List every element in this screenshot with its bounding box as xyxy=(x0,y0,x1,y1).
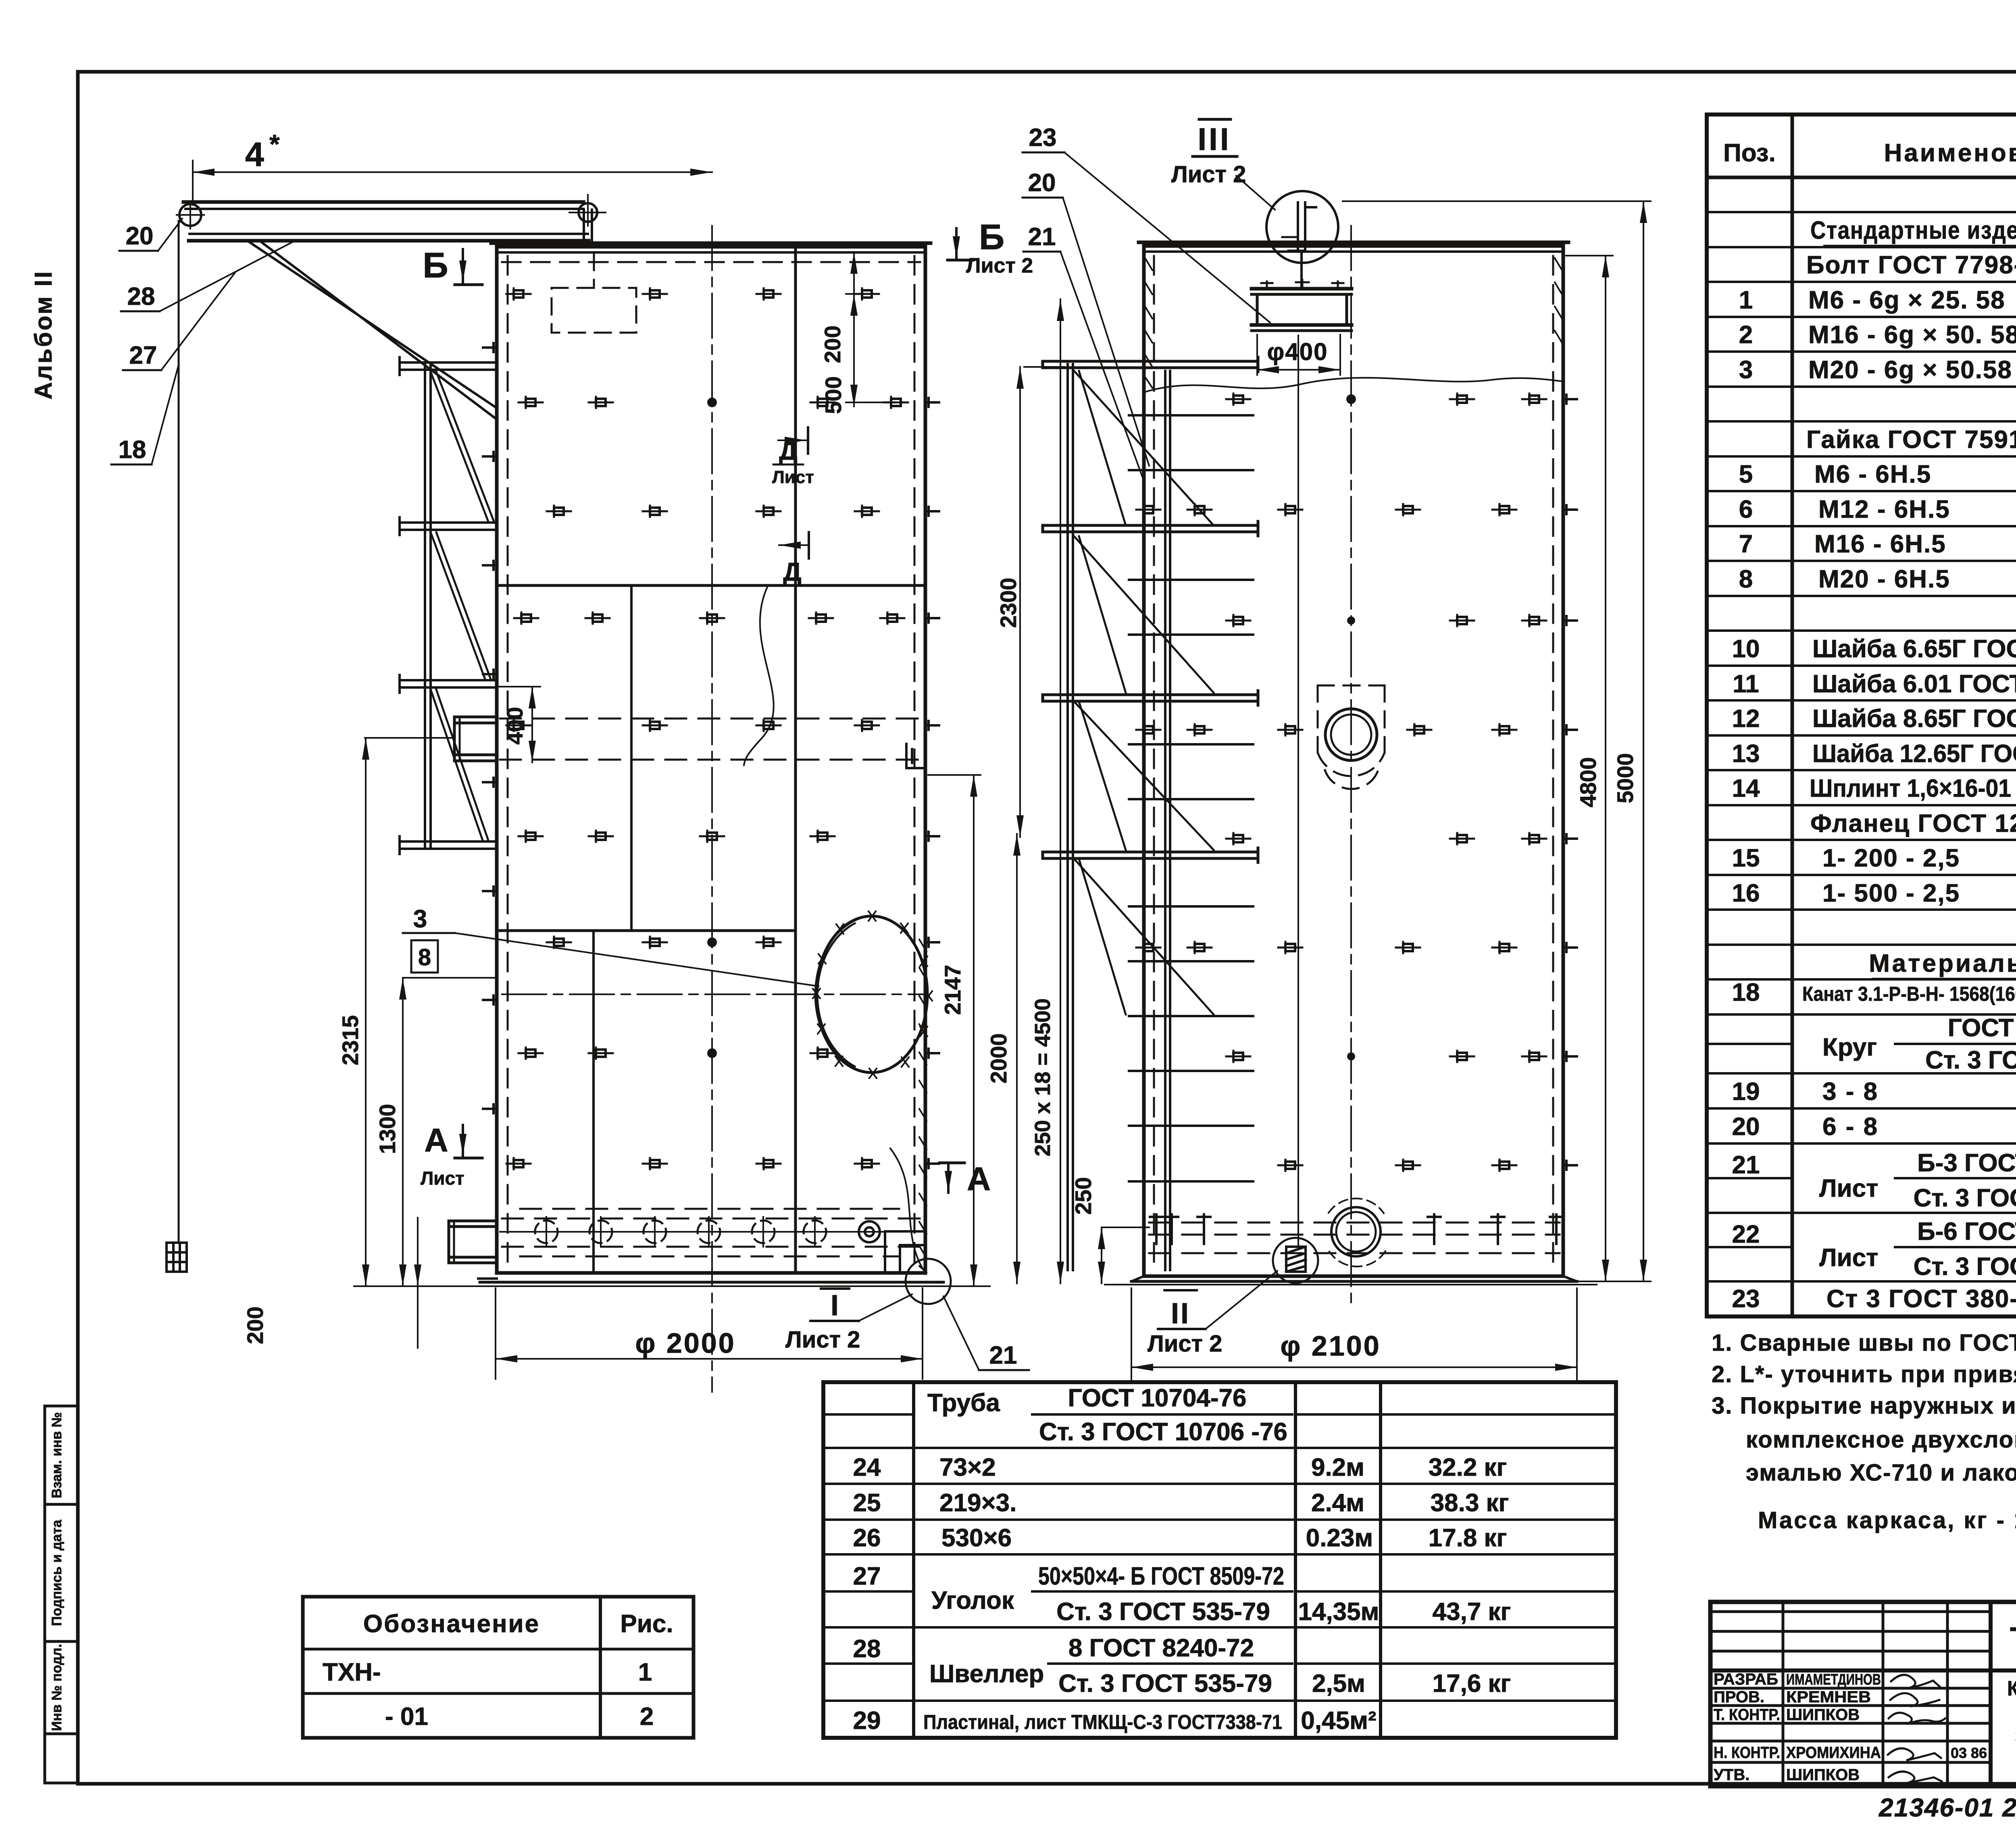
mast bracket 1 xyxy=(400,357,497,375)
svg-text:Шайба 8.65Г ГОСТ 11371-78: Шайба 8.65Г ГОСТ 11371-78 xyxy=(1812,705,2016,733)
svg-text:2. L*- уточнить при прив: 2. L*- уточнить при привязке. xyxy=(1712,1361,2016,1387)
svg-text:Инв № подл.: Инв № подл. xyxy=(49,1644,65,1731)
right view edge ticks xyxy=(1563,395,1577,1170)
svg-text:1: 1 xyxy=(638,1658,652,1686)
right view bolts row 7 xyxy=(1226,1051,1546,1062)
right view tank shell xyxy=(1139,242,1568,1276)
svg-text:13: 13 xyxy=(1732,740,1760,768)
svg-text:15: 15 xyxy=(1732,844,1760,872)
svg-text:ХРОМИХИНА: ХРОМИХИНА xyxy=(1786,1744,1881,1762)
svg-text:Б-3 ГОСТ 19903-74: Б-3 ГОСТ 19903-74 xyxy=(1917,1149,2016,1177)
svg-text:Ст. 3 ГОСТ 535-79: Ст. 3 ГОСТ 535-79 xyxy=(1058,1670,1272,1697)
svg-text:200: 200 xyxy=(820,325,845,363)
right view bolts row 6 xyxy=(1136,942,1516,953)
dimension 2147 xyxy=(928,775,981,1286)
svg-text:1- 200 - 2,5: 1- 200 - 2,5 xyxy=(1822,844,1960,872)
svg-text:1. Сварные швы по ГОСТ526: 1. Сварные швы по ГОСТ5264-80 xyxy=(1712,1330,2016,1356)
callout 3/8 flag xyxy=(403,905,818,986)
spec table rows text xyxy=(1732,217,2016,1313)
svg-text:Швеллер: Швеллер xyxy=(929,1660,1044,1688)
tank base plate xyxy=(354,1279,990,1286)
svg-text:ИМАМЕТДИНОВ: ИМАМЕТДИНОВ xyxy=(1786,1671,1881,1688)
ladder rungs xyxy=(1129,415,1253,1181)
perforation holes xyxy=(535,1221,826,1243)
svg-text:250 х 18 = 4500: 250 х 18 = 4500 xyxy=(1031,998,1055,1156)
dimension 250 xyxy=(1102,1227,1149,1283)
ladder platform bar 2 xyxy=(1043,521,1258,536)
hoist cable xyxy=(178,221,180,1243)
left view edge ticks left xyxy=(483,343,497,1113)
svg-text:М6 - 6g × 25. 58: М6 - 6g × 25. 58 xyxy=(1808,286,2006,314)
svg-text:Взам. инв №: Взам. инв № xyxy=(49,1412,65,1498)
manhole rim bolts x-marks xyxy=(813,911,932,1078)
svg-text:Альбом II: Альбом II xyxy=(30,270,57,400)
svg-text:17.8 кг: 17.8 кг xyxy=(1429,1524,1507,1552)
right view bottom hidden lines xyxy=(1149,1223,1560,1253)
svg-text:Подпись и дата: Подпись и дата xyxy=(49,1519,65,1626)
position label 21 right xyxy=(1023,223,1143,480)
spec table header text xyxy=(1723,127,2016,179)
svg-text:43,7 кг: 43,7 кг xyxy=(1433,1598,1511,1626)
view mark D upper xyxy=(772,427,814,487)
svg-text:10: 10 xyxy=(1732,635,1760,663)
svg-text:8 ГОСТ 8240-72: 8 ГОСТ 8240-72 xyxy=(1068,1634,1254,1662)
ladder platform bar 4 xyxy=(1043,848,1258,862)
svg-text:ГОСТ 10704-76: ГОСТ 10704-76 xyxy=(1068,1384,1247,1412)
svg-text:3: 3 xyxy=(1739,356,1753,384)
svg-text:Б: Б xyxy=(423,245,448,285)
svg-text:Труба: Труба xyxy=(927,1389,1000,1417)
svg-text:22: 22 xyxy=(1732,1221,1760,1248)
bottom flange fittings xyxy=(1150,1214,1563,1244)
svg-text:500: 500 xyxy=(821,376,846,414)
right view edge hatching xyxy=(1145,258,1562,388)
svg-text:2.4м: 2.4м xyxy=(1311,1489,1364,1517)
svg-text:Фланец ГОСТ 12820-80: Фланец ГОСТ 12820-80 xyxy=(1810,810,2016,837)
manhole hidden outline xyxy=(1318,685,1385,789)
designation table text xyxy=(323,1610,673,1731)
svg-text:1: 1 xyxy=(1739,286,1753,314)
ladder inner stringer xyxy=(1165,371,1170,1270)
section mark B left xyxy=(423,245,482,285)
dimension phi2000 xyxy=(496,1288,923,1379)
left nozzle pipe xyxy=(454,717,497,761)
svg-text:Лист: Лист xyxy=(772,467,814,487)
dimension 2315 xyxy=(365,738,453,1286)
svg-text:М16 - 6g × 50. 58: М16 - 6g × 50. 58 xyxy=(1808,321,2016,349)
svg-text:М12 - 6Н.5: М12 - 6Н.5 xyxy=(1818,496,1950,523)
left view bolts row 3 xyxy=(547,506,879,517)
svg-text:6: 6 xyxy=(1739,496,1753,523)
dimension 200 bottom xyxy=(417,1218,419,1348)
svg-text:23: 23 xyxy=(1732,1285,1760,1313)
svg-text:25: 25 xyxy=(853,1489,881,1517)
svg-text:73×2: 73×2 xyxy=(939,1454,996,1481)
svg-text:12: 12 xyxy=(1732,705,1760,733)
svg-text:23: 23 xyxy=(1029,124,1057,152)
hoist cable inside tank xyxy=(1297,335,1299,1247)
title block drawing name xyxy=(2007,1677,2016,1774)
mast diagonal braces xyxy=(431,372,494,841)
dimension 4800 xyxy=(1566,256,1613,1281)
svg-text:200: 200 xyxy=(242,1306,268,1344)
svg-text:Шайба 12.65Г ГОСТ 11371-78: Шайба 12.65Г ГОСТ 11371-78 xyxy=(1812,740,2016,768)
hoist box top bolts xyxy=(1261,280,1343,289)
svg-text:17,6 кг: 17,6 кг xyxy=(1433,1670,1511,1697)
dimension 2000 right xyxy=(1016,834,1018,1283)
dimension 1300 xyxy=(403,978,496,1286)
right view centerline xyxy=(1350,226,1352,1306)
left view bolts row 2 xyxy=(519,397,908,408)
left view bolts row 8 xyxy=(519,1048,835,1059)
detail II circle xyxy=(1273,1238,1318,1283)
svg-text:5: 5 xyxy=(1739,460,1753,488)
svg-text:3. Покрытие наружных и вн: 3. Покрытие наружных и внутренних позерх… xyxy=(1712,1393,2016,1419)
section mark A right xyxy=(939,1161,991,1198)
svg-text:27: 27 xyxy=(853,1562,881,1590)
svg-text:9.2м: 9.2м xyxy=(1311,1454,1364,1481)
svg-text:III: III xyxy=(1198,121,1231,157)
svg-text:29: 29 xyxy=(853,1707,881,1735)
notes text xyxy=(1712,1330,2016,1486)
svg-text:Лист: Лист xyxy=(1819,1175,1878,1202)
section cut wavy line lower xyxy=(890,1148,926,1274)
view mark D lower xyxy=(778,532,809,586)
manhole ellipse xyxy=(815,916,927,1073)
position label 20 right xyxy=(1023,169,1149,466)
svg-text:М20 - 6g × 50.58: М20 - 6g × 50.58 xyxy=(1808,356,2012,384)
svg-text:7: 7 xyxy=(1739,530,1753,558)
svg-text:Каркасно-засыпной: Каркасно-засыпной xyxy=(2007,1677,2016,1700)
davit diagonal braces xyxy=(248,241,497,419)
svg-text:530×6: 530×6 xyxy=(941,1524,1012,1552)
svg-text:Лист 2: Лист 2 xyxy=(1171,161,1246,187)
mast bracket 4 xyxy=(400,836,497,854)
ladder platform bar 3 xyxy=(1043,691,1258,705)
right view hidden edge dashes xyxy=(1154,256,1553,1270)
svg-text:ПластинаI, лист ТМКЩ-С-3 ГОСТ: ПластинаI, лист ТМКЩ-С-3 ГОСТ7338-71 xyxy=(923,1711,1282,1733)
svg-text:Ст. 3 ГОСТ 535-79: Ст. 3 ГОСТ 535-79 xyxy=(1925,1046,2016,1074)
svg-text:Стандартные изделия: Стандартные изделия xyxy=(1810,217,2016,244)
svg-text:11: 11 xyxy=(1733,670,1759,698)
svg-text:Канат 3.1-Р-В-Н- 1568(160) ГОС: Канат 3.1-Р-В-Н- 1568(160) ГОСТ3066-80 xyxy=(1802,983,2016,1005)
svg-text:Н. КОНТР.: Н. КОНТР. xyxy=(1714,1744,1780,1762)
position label 20 xyxy=(119,219,182,251)
svg-text:Т. КОНТР.: Т. КОНТР. xyxy=(1714,1706,1780,1724)
svg-text:М20 - 6Н.5: М20 - 6Н.5 xyxy=(1818,565,1950,593)
svg-text:Шайба 6.65Г ГОСТ 6402-70: Шайба 6.65Г ГОСТ 6402-70 xyxy=(1812,635,2016,663)
svg-text:Шайба 6.01 ГОСТ 10906-78: Шайба 6.01 ГОСТ 10906-78 xyxy=(1812,670,2016,698)
middle parts table grid xyxy=(823,1382,1616,1738)
ladder diagonal braces xyxy=(1074,371,1214,1014)
svg-text:ШИПКОВ: ШИПКОВ xyxy=(1786,1766,1860,1784)
svg-text:Ст. 3 ГОСТ 14637-79: Ст. 3 ГОСТ 14637-79 xyxy=(1914,1253,2016,1281)
svg-text:2315: 2315 xyxy=(337,1015,363,1066)
svg-text:φ 2000: φ 2000 xyxy=(635,1327,735,1359)
left view top hatch dashed outline xyxy=(552,254,636,333)
left view bolts row 5 xyxy=(506,720,879,731)
svg-text:2000: 2000 xyxy=(986,1033,1011,1084)
svg-text:Б: Б xyxy=(979,217,1004,257)
middle parts table text xyxy=(853,1384,1511,1735)
svg-text:8: 8 xyxy=(1739,565,1753,593)
svg-text:Ст 3 ГОСТ 380-71: Ст 3 ГОСТ 380-71 xyxy=(1826,1285,2016,1313)
section cut wavy line upper xyxy=(744,587,774,765)
svg-text:32.2 кг: 32.2 кг xyxy=(1429,1454,1507,1481)
svg-text:ГОСТ 2590-71: ГОСТ 2590-71 xyxy=(1948,1014,2016,1042)
right view base plate xyxy=(1105,1276,1597,1285)
manhole front view xyxy=(1325,709,1377,760)
detail I callout xyxy=(785,1289,912,1353)
right view bolts row 2 xyxy=(1136,504,1516,515)
svg-text:8: 8 xyxy=(418,944,431,971)
svg-text:2,5м: 2,5м xyxy=(1312,1670,1365,1697)
svg-text:II: II xyxy=(1171,1298,1190,1330)
svg-text:А: А xyxy=(967,1161,991,1198)
svg-text:2: 2 xyxy=(640,1703,654,1731)
perforation hole cross ticks xyxy=(546,1217,815,1247)
svg-text:14,35м: 14,35м xyxy=(1298,1598,1379,1626)
svg-text:20: 20 xyxy=(1732,1113,1760,1141)
right edge hatching xyxy=(919,939,927,1273)
svg-text:Гайка ГОСТ 75915-70: Гайка ГОСТ 75915-70 xyxy=(1806,426,2016,454)
svg-text:400: 400 xyxy=(502,707,527,744)
svg-text:Наименование: Наименование xyxy=(1884,139,2016,167)
svg-text:6 - 8: 6 - 8 xyxy=(1822,1113,1879,1141)
dimension phi400 xyxy=(1257,335,1340,375)
svg-text:5000: 5000 xyxy=(1612,753,1638,804)
svg-text:0.23м: 0.23м xyxy=(1306,1524,1373,1552)
svg-text:Поз.: Поз. xyxy=(1723,139,1776,167)
designation table grid xyxy=(303,1597,694,1738)
svg-text:19: 19 xyxy=(1732,1078,1760,1106)
specification table grid xyxy=(1707,115,2016,1316)
svg-text:28: 28 xyxy=(853,1635,881,1663)
dimension 400 nozzle xyxy=(497,687,540,762)
hoist hanger rod xyxy=(1300,252,1303,289)
left view tank shell xyxy=(491,243,931,1273)
mast bracket 3 xyxy=(400,675,497,693)
davit beam end eye xyxy=(569,195,606,226)
right view bolts row 1 xyxy=(1226,394,1546,405)
detail II callout xyxy=(1148,1271,1277,1357)
drain circle dashed ticks xyxy=(1329,1198,1385,1266)
svg-text:Ст. 3 ГОСТ 535-79: Ст. 3 ГОСТ 535-79 xyxy=(1056,1598,1270,1626)
perforated pipe centerline xyxy=(500,1231,923,1233)
position label 18 xyxy=(111,365,179,464)
left view edge ticks right xyxy=(925,398,939,1168)
detail II drain fitting xyxy=(1286,1247,1306,1272)
svg-text:4: 4 xyxy=(245,135,264,173)
svg-text:*: * xyxy=(269,129,280,159)
svg-text:Лист: Лист xyxy=(421,1168,464,1189)
position label 28 xyxy=(121,242,293,311)
svg-text:комплексное двухслойное: комплексное двухслойное грунтом ХС-010 xyxy=(1746,1427,2016,1453)
svg-text:Лист 2: Лист 2 xyxy=(966,254,1033,277)
svg-text:Ст. 3 ГОСТ 10706 -76: Ст. 3 ГОСТ 10706 -76 xyxy=(1039,1418,1287,1446)
svg-text:250: 250 xyxy=(1070,1177,1096,1214)
svg-text:2147: 2147 xyxy=(940,965,965,1015)
svg-text:1300: 1300 xyxy=(375,1104,400,1154)
dimension 2300 xyxy=(1020,367,1064,837)
davit pulley xyxy=(177,201,204,229)
svg-text:ТП 902-2-413.86: ТП 902-2-413.86 xyxy=(2010,1620,2016,1656)
svg-text:3 - 8: 3 - 8 xyxy=(1822,1078,1879,1106)
position label 23 xyxy=(1023,124,1270,323)
svg-text:ШИПКОВ: ШИПКОВ xyxy=(1786,1706,1860,1724)
svg-text:20: 20 xyxy=(1028,169,1056,197)
svg-text:Ст. 3 ГОСТ 16523-70: Ст. 3 ГОСТ 16523-70 xyxy=(1914,1184,2016,1212)
svg-text:Лист: Лист xyxy=(1819,1244,1878,1272)
svg-text:М6 - 6Н.5: М6 - 6Н.5 xyxy=(1814,460,1931,488)
mast bracket 2 xyxy=(400,517,497,535)
position label 21 left view xyxy=(943,1296,1029,1370)
right edge angle bracket xyxy=(906,744,925,768)
left view plate seams xyxy=(497,248,925,1271)
davit beam xyxy=(183,202,592,246)
right view bolts row 4 xyxy=(1136,724,1516,735)
hoist lifting box xyxy=(1252,289,1352,331)
svg-text:21346-01 27: 21346-01 27 xyxy=(1879,1793,2016,1822)
detail I circle xyxy=(906,1259,951,1304)
title block signatures xyxy=(1888,1675,1945,1783)
svg-text:4800: 4800 xyxy=(1575,757,1601,808)
bottom drain double circle xyxy=(1331,1207,1381,1256)
right view bolts row 5 xyxy=(1226,833,1546,844)
left view manhole centerline xyxy=(502,993,923,995)
svg-text:I: I xyxy=(831,1289,839,1322)
svg-text:Д: Д xyxy=(783,557,802,586)
dimension 4* xyxy=(193,160,712,205)
nozzle level hidden lines xyxy=(500,719,923,760)
ladder platform bar 1 xyxy=(1043,357,1258,372)
svg-text:16: 16 xyxy=(1732,879,1760,907)
svg-text:28: 28 xyxy=(127,283,155,310)
cable counterweight block xyxy=(167,1243,187,1272)
left view bolts row 4 xyxy=(514,612,904,624)
svg-text:А: А xyxy=(424,1122,448,1159)
support mast xyxy=(425,364,431,848)
svg-text:2300: 2300 xyxy=(996,578,1021,628)
left view bolts row 7 xyxy=(547,937,781,948)
right view bolts row 3 xyxy=(1226,615,1546,626)
svg-text:Масса каркаса, кг - 119: Масса каркаса, кг - 1190. xyxy=(1758,1507,2016,1533)
svg-text:1- 500 - 2,5: 1- 500 - 2,5 xyxy=(1822,879,1960,907)
svg-text:26: 26 xyxy=(853,1524,881,1552)
left view bolts row 9 xyxy=(506,1158,879,1169)
svg-text:18: 18 xyxy=(1732,979,1760,1006)
svg-text:Шплинт 1,6×16-01 ГОСТ 397-7: Шплинт 1,6×16-01 ГОСТ 397-79 xyxy=(1810,775,2016,802)
svg-text:Круг: Круг xyxy=(1822,1033,1877,1061)
bottom right bracket xyxy=(885,1231,925,1273)
break wavy line xyxy=(1145,378,1563,392)
svg-text:03 86: 03 86 xyxy=(1951,1745,1987,1761)
svg-text:РАЗРАБ: РАЗРАБ xyxy=(1714,1670,1778,1688)
svg-text:Уголок: Уголок xyxy=(931,1587,1014,1614)
left view bolts row 1 xyxy=(506,288,879,300)
perforated pipe hidden lines xyxy=(502,1209,921,1256)
left view bolts row 6 xyxy=(519,831,835,842)
dimension 250x18=4500 xyxy=(1060,299,1061,1283)
svg-text:21: 21 xyxy=(989,1341,1017,1369)
drain fitting double circle xyxy=(859,1221,880,1242)
position label 27 xyxy=(123,273,235,370)
svg-text:М16 - 6Н.5: М16 - 6Н.5 xyxy=(1814,530,1946,558)
svg-text:21: 21 xyxy=(1732,1151,1760,1179)
right view bolts row 8 xyxy=(1278,1160,1516,1171)
left margin stamp boxes xyxy=(45,1406,78,1783)
left view vertical centerline xyxy=(711,226,713,1392)
svg-text:24: 24 xyxy=(853,1454,881,1481)
svg-text:ПРОВ.: ПРОВ. xyxy=(1714,1688,1764,1706)
svg-text:Болт ГОСТ 7798-70: Болт ГОСТ 7798-70 xyxy=(1806,251,2016,279)
svg-text:20: 20 xyxy=(126,222,154,250)
ladder outer stringer xyxy=(1068,364,1073,1270)
detail III circle xyxy=(1266,191,1338,263)
svg-text:0,45м²: 0,45м² xyxy=(1301,1707,1376,1735)
svg-text:3: 3 xyxy=(413,905,427,933)
svg-text:21: 21 xyxy=(1028,223,1056,251)
svg-text:ТХН-: ТХН- xyxy=(323,1658,381,1686)
svg-text:эмалью ХС-710 и лаком ХС: эмалью ХС-710 и лаком ХС-76 по ГОСТ9355-… xyxy=(1746,1460,2016,1486)
bottom pipe stub xyxy=(449,1221,497,1263)
svg-text:Лист 2: Лист 2 xyxy=(1148,1331,1222,1357)
detail III label xyxy=(1171,119,1275,210)
title block role labels xyxy=(1714,1670,1987,1784)
section mark B right xyxy=(948,217,1033,277)
svg-text:- 01: - 01 xyxy=(385,1703,428,1731)
dimension phi2100 xyxy=(1131,1288,1577,1383)
svg-text:Материалы: Материалы xyxy=(1869,950,2016,977)
left view hidden edge dashes xyxy=(502,256,920,1266)
svg-text:Б-6 ГОСТ 19903-74: Б-6 ГОСТ 19903-74 xyxy=(1917,1218,2016,1245)
svg-text:38.3 кг: 38.3 кг xyxy=(1431,1489,1509,1517)
dimension 200 top xyxy=(846,252,899,406)
svg-text:219×3.: 219×3. xyxy=(939,1489,1016,1517)
svg-text:Лист 2: Лист 2 xyxy=(785,1327,860,1353)
section mark A left xyxy=(421,1122,482,1189)
dimension 5000 xyxy=(1343,201,1651,1281)
title block grid xyxy=(1710,1602,2016,1786)
svg-text:2: 2 xyxy=(1739,321,1753,349)
svg-text:18: 18 xyxy=(119,436,146,464)
svg-text:14: 14 xyxy=(1732,775,1760,802)
svg-text:27: 27 xyxy=(129,342,157,369)
svg-text:УТВ.: УТВ. xyxy=(1714,1766,1749,1784)
svg-text:Обозначение: Обозначение xyxy=(363,1610,540,1638)
svg-text:φ 2100: φ 2100 xyxy=(1280,1330,1381,1362)
svg-text:КРЕМНЕВ: КРЕМНЕВ xyxy=(1786,1688,1871,1706)
svg-text:Рис.: Рис. xyxy=(620,1610,673,1638)
svg-text:50×50×4- Б ГОСТ 8509-72: 50×50×4- Б ГОСТ 8509-72 xyxy=(1038,1562,1284,1590)
